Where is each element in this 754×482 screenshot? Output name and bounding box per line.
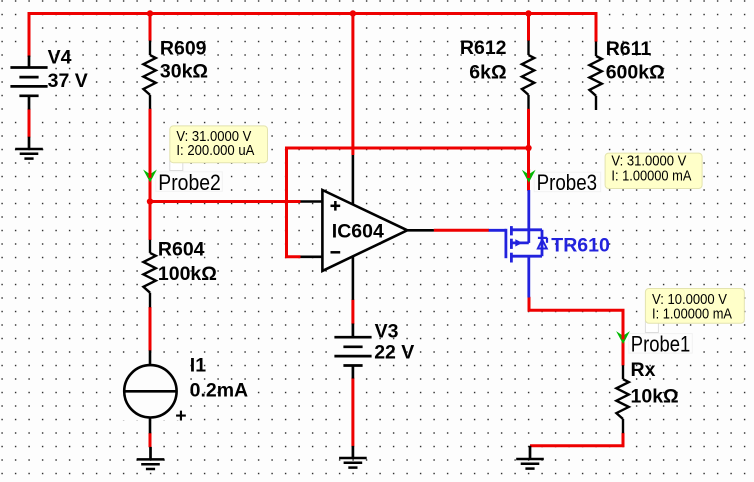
svg-text:I: 1.00000 mA: I: 1.00000 mA — [652, 306, 732, 322]
channel segment 1 — [510, 226, 513, 235]
callout tail (Probe1 box) — [645, 321, 658, 333]
wire R609 top lead — [149, 12, 152, 41]
op-amp inverting input mark - — [331, 251, 341, 254]
svg-text:6kΩ: 6kΩ — [469, 61, 506, 83]
probe arrow Probe3 — [522, 170, 536, 183]
svg-text:+: + — [175, 405, 186, 427]
right vertical (body to source) — [541, 230, 544, 256]
source stub — [511, 255, 542, 258]
svg-text:IC604: IC604 — [332, 220, 384, 242]
svg-text:0.2mA: 0.2mA — [190, 379, 249, 401]
wire Rx bottom to ground run — [530, 433, 623, 446]
body diode cathode bar — [538, 237, 547, 239]
svg-text:Rx: Rx — [631, 359, 656, 381]
probe halo Probe2 — [156, 172, 223, 192]
MOSFET TR610 — [489, 190, 548, 298]
junction node Probe2 — [147, 198, 153, 204]
op-amp IC604 — [322, 190, 407, 271]
svg-text:R609: R609 — [160, 38, 207, 60]
svg-text:TR610: TR610 — [551, 235, 610, 257]
svg-text:Probe1: Probe1 — [631, 332, 691, 357]
body diode triangle — [538, 240, 547, 249]
callout tail (Probe2 box) — [170, 160, 183, 171]
svg-text:V3: V3 — [375, 321, 399, 343]
op-amp non-inverting input mark + — [331, 205, 341, 208]
current source I1 — [149, 350, 152, 365]
svg-text:R611: R611 — [606, 38, 652, 60]
gate bar — [504, 229, 507, 258]
wire op-amp V+ supply drop — [351, 12, 354, 155]
measurement box Probe1 — [645, 289, 744, 324]
resistor R611 — [595, 42, 597, 57]
junction node at R609 top — [147, 10, 153, 16]
svg-text:I: 1.00000 mA: I: 1.00000 mA — [611, 169, 691, 185]
source wire down — [527, 256, 530, 297]
wire feedback net: Probe3 node to inverting input — [287, 148, 529, 257]
resistor R612 — [527, 41, 529, 56]
svg-text:Probe3: Probe3 — [537, 170, 598, 195]
channel segment 2 — [510, 239, 513, 249]
svg-text:R604: R604 — [158, 239, 205, 261]
wire I1 bottom lead — [149, 433, 152, 447]
svg-text:V4: V4 — [48, 46, 72, 68]
svg-text:Probe2: Probe2 — [158, 170, 221, 195]
wire V4 minus lead — [28, 109, 31, 138]
wire R612 top lead — [527, 12, 530, 41]
wire R612 bottom to Probe3 node — [527, 109, 530, 191]
body stub — [511, 241, 528, 244]
svg-text:600kΩ: 600kΩ — [606, 61, 665, 83]
wire Probe2 node to non-inverting input — [150, 200, 301, 203]
drain wire from Probe3 node — [527, 190, 530, 243]
junction node at R612 top — [525, 10, 531, 16]
wire over Probe1 arrow — [622, 331, 625, 340]
wire over Probe3 arrow — [527, 169, 530, 178]
drain stub — [511, 228, 542, 231]
resistor R609 — [149, 41, 151, 56]
measurement box Probe2 — [170, 126, 268, 163]
component white backdrops — [8, 44, 631, 430]
wire source node to Rx top — [529, 297, 623, 366]
svg-text:I1: I1 — [190, 354, 206, 376]
battery V4 — [28, 56, 31, 68]
op-amp IC604 body fill — [322, 190, 407, 271]
wire V3 bottom to ground — [351, 378, 354, 447]
junction node Probe3 — [525, 145, 531, 151]
ground (V4) — [28, 137, 31, 149]
resistor Rx — [622, 365, 624, 379]
body arrow — [515, 239, 522, 246]
svg-text:37 V: 37 V — [48, 70, 88, 92]
junction node at op-amp supply — [350, 10, 356, 16]
ground (I1) — [149, 447, 152, 460]
svg-text:100kΩ: 100kΩ — [158, 263, 217, 285]
svg-text:V: 31.0000 V: V: 31.0000 V — [611, 154, 686, 170]
svg-text:22 V: 22 V — [374, 342, 414, 364]
probe arrow Probe1 — [616, 331, 630, 344]
gate lead — [489, 229, 506, 232]
svg-text:10kΩ: 10kΩ — [631, 386, 679, 408]
probe arrow Probe2 — [143, 170, 157, 183]
wire over Probe2 arrow — [149, 169, 152, 178]
svg-text:R612: R612 — [460, 37, 507, 59]
wire top rail with V4 and R611 drops — [29, 14, 596, 58]
probe halo Probe3 — [534, 172, 601, 192]
wire R604 bottom to I1 — [149, 307, 152, 351]
wire R609 bottom to R604 top — [149, 109, 152, 240]
resistor R604 — [149, 240, 151, 253]
battery V3 — [352, 324, 355, 338]
ground (V3) — [352, 446, 355, 458]
channel segment 3 — [510, 253, 513, 263]
wire op-amp output to gate — [434, 229, 489, 232]
svg-text:30kΩ: 30kΩ — [160, 61, 208, 83]
wire V3 top lead — [351, 300, 354, 325]
probe halo Probe1 — [629, 334, 693, 354]
ground (Rx) — [529, 446, 532, 459]
svg-text:I: 200.000 uA: I: 200.000 uA — [176, 143, 254, 159]
measurement box Probe3 — [605, 153, 702, 188]
